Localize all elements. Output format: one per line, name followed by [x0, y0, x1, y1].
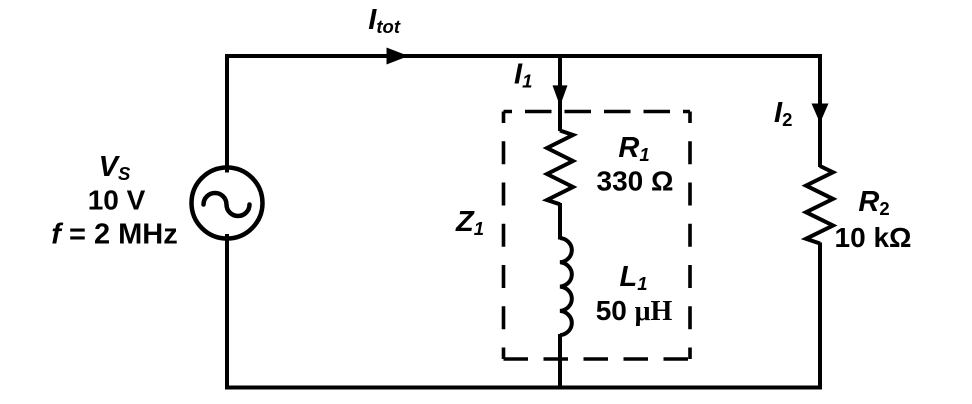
svg-text:L1: L1	[619, 261, 647, 294]
sine wave inside source	[204, 193, 250, 216]
current arrow I1 on middle branch	[553, 85, 568, 106]
resistor R1	[547, 131, 573, 205]
wire: left branch from source bottom down to bottom wire	[225, 234, 229, 390]
wire: right branch from R2 to bottom wire	[818, 243, 822, 390]
wire: bottom horizontal	[225, 386, 822, 390]
wire: middle branch from top wire to R1	[558, 56, 562, 131]
impedance box Z1 (dashed)	[504, 112, 691, 360]
voltage source VS (AC source circle)	[192, 168, 263, 239]
svg-text:VS: VS	[99, 151, 131, 184]
svg-text:10 V: 10 V	[88, 185, 146, 216]
svg-text:Itot: Itot	[368, 4, 401, 37]
wire: middle branch from L1 to bottom wire	[558, 334, 562, 390]
wire: right branch from top wire to R2	[818, 56, 822, 167]
svg-text:f = 2 MHz: f = 2 MHz	[51, 219, 178, 251]
svg-text:I1: I1	[514, 59, 532, 92]
svg-text:I2: I2	[774, 97, 792, 130]
svg-text:330 Ω: 330 Ω	[597, 166, 674, 197]
resistor R2	[806, 166, 833, 244]
inductor L1	[560, 238, 572, 335]
current arrow Itot on top wire	[387, 48, 409, 65]
wire: left branch from top wire down to source top	[225, 56, 229, 173]
wire: between R1 and L1	[558, 203, 562, 240]
svg-text:Z1: Z1	[455, 206, 484, 239]
svg-text:R1: R1	[618, 132, 649, 165]
wire: top horizontal from source branch to R2 branch	[225, 54, 822, 58]
svg-text:10 kΩ: 10 kΩ	[835, 222, 912, 253]
svg-text:R2: R2	[858, 186, 889, 219]
current arrow I2 on right branch	[812, 104, 829, 124]
svg-text:50 μH: 50 μH	[596, 295, 673, 327]
